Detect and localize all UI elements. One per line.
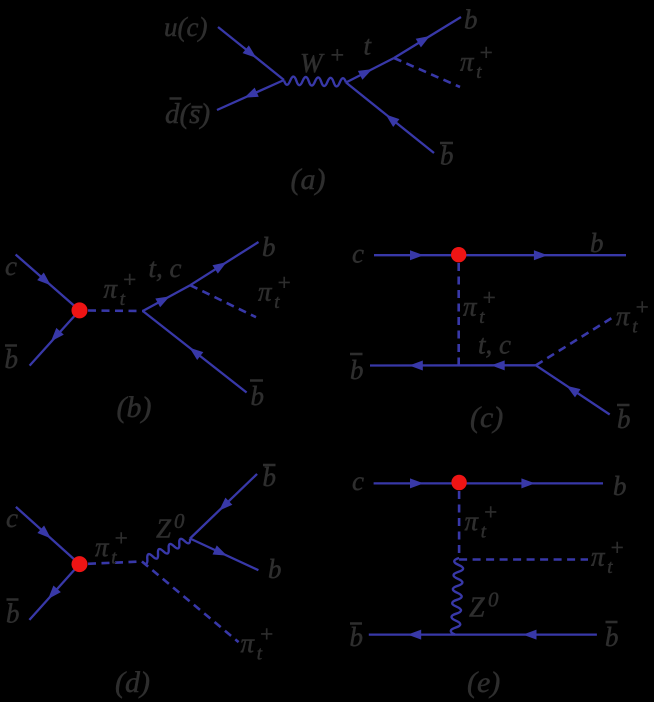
label bbar top right, diagram (d) (263, 462, 277, 492)
svg-text:(e): (e) (467, 666, 500, 699)
dashed technipion vertical, diagram (e) (458, 491, 461, 558)
svg-text:b: b (605, 622, 619, 652)
fermion line b (to top right), diagram (b) (190, 242, 258, 285)
svg-text:0: 0 (174, 509, 185, 533)
svg-text:b: b (268, 554, 282, 584)
fermion line bbar (to bottom right), arrow toward vertex, diagram (c) (536, 365, 610, 414)
svg-text:d(s): d(s) (165, 98, 210, 130)
svg-text:+: + (329, 43, 345, 69)
fermion bottom line bbar with two arrows pointing left, diagram (c) (370, 360, 536, 370)
svg-text:(c): (c) (470, 401, 503, 434)
fermion bottom line bbar with two arrows pointing left, diagram (e) (369, 630, 597, 640)
svg-text:0: 0 (488, 588, 499, 612)
svg-text:π: π (95, 532, 110, 562)
fermion line u(c) into W vertex (218, 27, 284, 80)
svg-text:+: + (478, 40, 494, 65)
fermion line c into red vertex, diagram (d) (16, 507, 80, 564)
svg-text:Z: Z (469, 593, 485, 624)
fermion top line c to b with two arrows, diagram (c) (374, 250, 626, 260)
fermion line bbar (to bottom right), arrow toward vertex, diagram (a) (346, 83, 434, 154)
svg-text:b: b (613, 471, 627, 501)
svg-text:π: π (616, 301, 631, 331)
dashed technipion propagator from red vertex, diagram (d) (88, 562, 142, 564)
red vertex dot, diagram (e) (451, 475, 466, 490)
svg-text:+: + (259, 622, 275, 647)
svg-text:π: π (463, 292, 478, 322)
label W+ (300, 43, 345, 78)
svg-text:W: W (300, 48, 325, 78)
label pi_t^+ upper, diagram (e) (465, 500, 499, 543)
dashed technipion outgoing up-right, diagram (c) (536, 316, 615, 365)
label pi_t^+ outgoing, diagram (b) (258, 270, 292, 313)
fermion line c into red vertex, diagram (b) (16, 255, 80, 311)
fermion line t (W vertex to pi_t emission vertex) (346, 58, 394, 83)
svg-text:π: π (460, 47, 475, 77)
svg-text:+: + (276, 270, 292, 295)
red vertex dot, diagram (c) (451, 247, 466, 262)
svg-text:Z: Z (156, 514, 172, 544)
svg-text:b: b (350, 355, 364, 385)
svg-text:+: + (481, 285, 497, 310)
fermion line b (to top right), diagram (a) (394, 17, 461, 58)
fermion top line c to b with two arrows, diagram (e) (374, 478, 603, 488)
fermion line dbar(sbar), arrow toward label (217, 80, 284, 110)
label pi_t^+ outgoing, diagram (d) (241, 622, 275, 665)
label dbar(sbar) incoming antiquark, diagram (a) (165, 98, 210, 130)
svg-text:(b): (b) (117, 391, 152, 424)
dashed technipion outgoing down-right, diagram (d) (142, 562, 239, 643)
dashed technipion horizontal outgoing, diagram (e) (459, 558, 588, 561)
fermion line bbar (to bottom right), arrow toward vertex, diagram (b) (143, 311, 247, 393)
fermion line bbar into red vertex, arrow toward label, diagram (d) (29, 564, 79, 620)
label bbar incoming, diagram (b) (5, 344, 19, 374)
label bbar bottom right, diagram (b) (250, 381, 264, 412)
svg-text:+: + (609, 535, 625, 560)
svg-text:+: + (483, 500, 499, 525)
svg-text:π: π (104, 274, 119, 304)
svg-text:c: c (352, 239, 364, 269)
label Z0, diagram (d) (156, 509, 185, 544)
svg-text:π: π (591, 542, 606, 572)
label pi_t^+ propagator, diagram (d) (95, 526, 129, 569)
svg-text:b: b (440, 141, 454, 171)
label bbar incoming, diagram (d) (6, 599, 20, 629)
svg-text:+: + (113, 526, 129, 551)
Z0 boson wavy propagator, diagram (d) (142, 539, 190, 564)
svg-text:u(c): u(c) (164, 12, 207, 42)
svg-text:b: b (5, 344, 19, 374)
svg-text:t, c: t, c (149, 253, 182, 283)
svg-text:π: π (258, 277, 273, 307)
svg-text:+: + (634, 295, 650, 320)
svg-text:π: π (241, 628, 256, 658)
label pi_t^+ right, diagram (e) (591, 535, 625, 578)
label bbar right, diagram (e) (605, 622, 619, 652)
fermion line b (to right), diagram (d) (190, 539, 258, 571)
svg-text:b: b (464, 5, 478, 35)
svg-text:b: b (263, 462, 277, 492)
svg-text:(a): (a) (291, 163, 326, 196)
dashed technipion propagator from red vertex, diagram (b) (88, 309, 143, 312)
red vertex dot, diagram (b) (72, 302, 88, 318)
W+ boson wavy propagator (284, 77, 346, 87)
svg-text:b: b (251, 381, 265, 411)
fermion line t,c (to emission vertex), diagram (b) (143, 285, 190, 311)
svg-text:π: π (465, 506, 480, 536)
label pi_t^+ outgoing, diagram (c) (616, 295, 650, 338)
label bbar bottom right, diagram (c) (617, 404, 631, 434)
label bbar left, diagram (c) (350, 354, 364, 385)
label bbar bottom, diagram (a) (440, 141, 454, 171)
svg-text:b: b (350, 622, 364, 652)
label Z0, diagram (e) (469, 588, 499, 624)
svg-text:(d): (d) (115, 666, 150, 699)
label pi_t^+ outgoing, diagram (a) (460, 40, 494, 83)
fermion line bbar (to top right), arrow toward vertex, diagram (d) (190, 474, 257, 539)
svg-text:b: b (6, 599, 20, 629)
dashed technipion vertical propagator, diagram (c) (457, 263, 460, 365)
svg-text:b: b (262, 232, 276, 262)
svg-text:+: + (122, 267, 138, 292)
svg-text:c: c (352, 466, 364, 496)
svg-text:b: b (590, 228, 604, 258)
svg-text:b: b (617, 404, 631, 434)
dashed technipion outgoing, diagram (b) (190, 285, 256, 317)
label pi_t^+ propagator, diagram (b) (104, 267, 138, 310)
fermion line bbar into red vertex, arrow toward label, diagram (b) (30, 310, 80, 365)
red vertex dot, diagram (d) (72, 556, 88, 572)
label pi_t^+ propagator, diagram (c) (463, 285, 497, 328)
Z0 boson wavy vertical propagator, diagram (e) (451, 558, 463, 635)
svg-text:t, c: t, c (478, 330, 511, 360)
label bbar left, diagram (e) (350, 622, 364, 652)
dashed technipion line out, diagram (a) (394, 58, 460, 87)
